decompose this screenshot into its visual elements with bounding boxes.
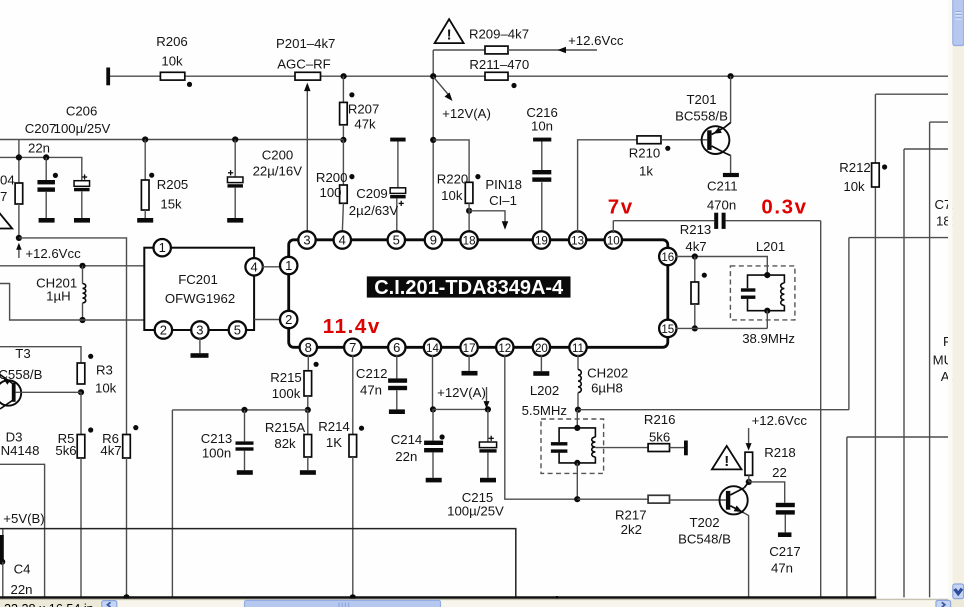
svg-text:R210: R210 [629, 146, 661, 161]
status bar [0, 599, 964, 607]
svg-text:R216: R216 [644, 412, 676, 427]
svg-text:R218: R218 [764, 445, 796, 460]
svg-text:9: 9 [430, 233, 437, 248]
ceramic filter L202 dashed box [541, 419, 604, 473]
wire rail A (y=139.5) [0, 139, 343, 141]
IC pin 14 (bottom) [424, 339, 441, 356]
wire rail to R220 [433, 140, 469, 182]
junction T201 emitter on rail [728, 73, 734, 79]
label AU (cut) [941, 369, 964, 384]
svg-text:2: 2 [285, 312, 292, 327]
warning triangle left edge (cut) [0, 212, 12, 229]
svg-text:5k6: 5k6 [55, 443, 76, 458]
+12V(A) branch arrow top [433, 77, 491, 121]
svg-text:OFWG1962: OFWG1962 [165, 291, 235, 306]
svg-text:C200: C200 [262, 148, 294, 163]
capacitor C216 10n [526, 105, 558, 233]
warning triangle near T202 [712, 446, 742, 470]
svg-text:1: 1 [159, 240, 166, 255]
ground pin 20 [533, 355, 549, 376]
resistor R217 2k2 [615, 495, 669, 537]
svg-text:R220: R220 [437, 171, 469, 186]
svg-text:82k: 82k [274, 436, 296, 451]
svg-text:L201: L201 [756, 239, 785, 254]
svg-text:23.28 x 16.54 in: 23.28 x 16.54 in [4, 602, 94, 607]
svg-text:R212: R212 [839, 160, 871, 175]
wire 0.3v bus down [820, 221, 822, 598]
wire +12.6 node to R6 branch [19, 238, 127, 435]
resistor R215A 82k [265, 410, 316, 475]
resistor R216 5k6 [595, 412, 684, 452]
IC pin 20 (bottom) [533, 339, 550, 356]
IC pin 10 (top) [605, 231, 622, 248]
svg-text:C217: C217 [769, 544, 801, 559]
label MU (cut) [933, 353, 962, 368]
wire bus y=149 [904, 149, 948, 597]
svg-text:15: 15 [661, 323, 674, 336]
svg-text:T201: T201 [686, 92, 716, 107]
IC pin 6 (bottom) [388, 339, 405, 356]
resistor R206 [156, 34, 188, 80]
svg-text:16: 16 [661, 251, 674, 264]
IC pin 16 (right) [659, 248, 676, 265]
wire left branch down [171, 410, 173, 598]
dot near R206 [187, 82, 192, 87]
junction R213 top [692, 253, 698, 259]
svg-text:FC201: FC201 [178, 272, 218, 287]
label L202 5.5MHz [522, 383, 567, 418]
svg-text:8: 8 [305, 340, 312, 355]
label D3 N4148 [1, 430, 40, 459]
svg-text:2: 2 [160, 323, 167, 338]
junction R6 bottom [123, 594, 129, 600]
resistor R209-4k7 [433, 26, 597, 54]
junction R214 bottom [350, 594, 356, 600]
svg-text:22n: 22n [395, 449, 417, 464]
wire pin16 to L201 [675, 257, 767, 276]
wire R3 junction down through R5 [80, 392, 82, 434]
svg-text:L202: L202 [530, 383, 559, 398]
svg-text:5: 5 [234, 323, 241, 338]
wire rail B (y=157.4) [0, 157, 82, 180]
svg-text:C213: C213 [201, 431, 233, 446]
IC pin 3 (top) [298, 231, 315, 248]
wire R6 to bottom rail [126, 458, 128, 598]
IC pin 5 (top) [388, 231, 405, 248]
resistor R200 100 [316, 140, 348, 233]
svg-text:R207: R207 [348, 101, 380, 116]
resistor R204 (cut at edge) [0, 140, 23, 238]
hscroll track [118, 601, 936, 607]
svg-text:20: 20 [535, 342, 548, 355]
label 22n [28, 141, 50, 156]
tick on bottom rail [556, 596, 558, 601]
resistor R214 1K [318, 419, 356, 457]
FC201 pin 3 [191, 321, 208, 338]
label 38.9MHz [742, 331, 795, 346]
svg-text:10k: 10k [161, 54, 183, 69]
resistor R213 4k7 [680, 222, 712, 328]
resistor R215 100k [270, 370, 311, 401]
svg-text:4: 4 [250, 259, 257, 274]
svg-text:C214: C214 [391, 432, 423, 447]
IC pin 7 (bottom) [344, 339, 361, 356]
page edge strip [948, 0, 953, 600]
arrow +12.6Vcc down to R218 [746, 428, 752, 451]
svg-text:04: 04 [0, 173, 15, 188]
svg-text:2µ2/63V: 2µ2/63V [349, 203, 399, 218]
svg-text:N4148: N4148 [1, 443, 40, 458]
wire L202 bottom to pin12 row [576, 463, 578, 499]
vertical scrollbar thumb [953, 0, 964, 46]
svg-text:4k7: 4k7 [100, 443, 121, 458]
svg-text:100n: 100n [202, 446, 231, 461]
FC201 pin 1 [154, 239, 171, 256]
IC pin 4 (top) [334, 231, 351, 248]
svg-text:10: 10 [607, 235, 620, 248]
svg-text:22: 22 [772, 465, 787, 480]
svg-text:4: 4 [339, 233, 346, 248]
dot near R214 [359, 426, 364, 431]
terminal bar left of R206 [106, 68, 110, 86]
svg-text:1µH: 1µH [46, 288, 70, 303]
svg-text:38.9MHz: 38.9MHz [742, 331, 795, 346]
IC pin 12 (bottom) [496, 339, 513, 356]
capacitor C217 47n [769, 503, 801, 576]
resistor R210 1k [629, 136, 661, 178]
dot near R205 [149, 173, 154, 178]
svg-text:47k: 47k [354, 117, 376, 132]
capacitor C213 100n [201, 410, 254, 475]
wire R220 to pin 18 [468, 203, 470, 233]
resistor R6 4k7 [100, 431, 130, 458]
label L201 [756, 239, 785, 254]
svg-text:C4: C4 [14, 562, 31, 577]
capacitor C200 22u/16V electrolytic [227, 140, 302, 223]
wire CH202 junction to L202 [576, 410, 578, 428]
svg-text:47n: 47n [771, 561, 793, 576]
capacitor C214 22n [391, 409, 443, 482]
wire rail to T201 emitter [730, 76, 732, 123]
dot near R210 [665, 146, 670, 151]
svg-text:1k: 1k [639, 163, 653, 178]
wire T202 emitter down [744, 513, 749, 599]
svg-text:5: 5 [393, 233, 400, 248]
resistor R220 10k [437, 171, 473, 203]
svg-text:19: 19 [535, 235, 548, 248]
junction R211 wire [430, 73, 436, 79]
svg-text:AGC–RF: AGC–RF [277, 57, 331, 72]
IC pin 9 (top) [425, 231, 442, 248]
svg-text:5.5MHz: 5.5MHz [522, 403, 567, 418]
svg-text:6µH8: 6µH8 [591, 380, 623, 395]
vertical scrollbar track [953, 0, 964, 600]
terminal bar T201 collector [723, 173, 739, 177]
svg-text:6: 6 [393, 340, 400, 355]
junction +12.6Vcc node [16, 235, 22, 241]
svg-text:12: 12 [498, 342, 511, 355]
wire collector row to C217 [749, 482, 785, 503]
transistor T202 BC548/B [678, 482, 749, 547]
label P (cut) [943, 334, 955, 349]
svg-text:22n: 22n [10, 582, 32, 597]
capacitor C212 47n [356, 355, 407, 414]
wire bus y=237.6 [849, 238, 948, 410]
transistor T201 BC558/B [675, 92, 730, 155]
junction T202 collector/R218 [746, 479, 752, 485]
capacitor C211 470n [613, 179, 820, 234]
svg-text:3: 3 [196, 323, 203, 338]
svg-text:47n: 47n [360, 382, 382, 397]
junction rail A / C200 [232, 136, 238, 142]
hscroll thumb [245, 600, 441, 607]
svg-text:R3: R3 [96, 363, 113, 378]
inductor CH202 6uH8 [578, 355, 628, 410]
resistor R211-470 [469, 57, 529, 80]
wire bus y=94 from R212 line [875, 93, 948, 95]
svg-text:22n: 22n [28, 141, 50, 156]
dot near R212 [882, 164, 887, 169]
svg-text:7v: 7v [608, 196, 634, 219]
svg-text:R215A: R215A [265, 420, 306, 435]
junction below R220 [466, 208, 472, 214]
svg-text:BC558/B: BC558/B [0, 367, 43, 382]
wire T3 base to R3 bottom [16, 391, 81, 393]
svg-text:10k: 10k [843, 179, 865, 194]
svg-text:+12V(A): +12V(A) [442, 106, 491, 121]
warning triangle top [435, 19, 464, 43]
wire FC201 pin4 to IC pin 1 [262, 266, 282, 268]
junction L202/pin12/R217 [574, 496, 580, 502]
svg-text:100: 100 [319, 185, 341, 200]
wire pin12 down and right [505, 355, 578, 500]
junction R213 bottom [692, 325, 698, 331]
svg-text:CH202: CH202 [587, 366, 628, 381]
svg-text:7: 7 [349, 340, 356, 355]
wire main +12.6V rail (y=76) [109, 75, 948, 77]
svg-text:5k6: 5k6 [649, 430, 670, 445]
inductor CH201 1uH [36, 266, 86, 320]
resistor R5 5k6 [55, 431, 84, 458]
svg-text:R217: R217 [615, 507, 647, 522]
svg-text:PIN18: PIN18 [485, 177, 522, 192]
IC C.I.201-TDA8349A-4 body [289, 240, 668, 347]
svg-text:470n: 470n [707, 198, 736, 213]
IC pin 19 (top) [533, 231, 550, 248]
IC pin 11 (bottom) [569, 339, 586, 356]
capacitor C206 100u/25V electrolytic [74, 174, 90, 222]
FC201 pin 2 [155, 321, 172, 338]
label C7 (cut) [935, 197, 959, 212]
svg-text:BC558/B: BC558/B [675, 109, 728, 124]
svg-text:C.I.201-TDA8349A-4: C.I.201-TDA8349A-4 [374, 277, 564, 299]
wire R210 to T201 base [661, 139, 707, 141]
label +5V(B) [3, 511, 44, 526]
wire T201 collector to bar [730, 155, 732, 173]
svg-text:!: ! [447, 27, 452, 44]
L202 tank circuit [551, 425, 596, 466]
junction rail B / R204 [16, 154, 22, 160]
label box C.I.201-TDA8349A-4 [367, 276, 571, 298]
svg-text:C207: C207 [25, 121, 57, 136]
wire pin14 down [432, 355, 434, 410]
junction C215 top [485, 406, 491, 412]
wire R217 to T202 base [670, 499, 726, 501]
svg-text:10k: 10k [95, 381, 117, 396]
wire R217 row [577, 498, 648, 500]
voltage 7v [608, 196, 634, 219]
svg-text:3: 3 [303, 233, 310, 248]
resistor R205 15k [137, 140, 188, 223]
label +12.6Vcc (T202) [752, 413, 808, 428]
wire rail to FC201 (y=265.8) [0, 265, 144, 267]
wire bus y=122 [930, 122, 948, 597]
svg-text:P201–4k7: P201–4k7 [276, 36, 335, 51]
svg-text:T3: T3 [15, 346, 30, 361]
terminal bar R216 [684, 441, 688, 456]
wire schematic bottom rail [0, 596, 876, 599]
svg-text:C212: C212 [356, 366, 388, 381]
wire +12VA row [433, 408, 488, 410]
transistor T3 BC558/B (cut at edge) [0, 346, 43, 409]
arrow PIN18 CI-1 [469, 177, 522, 230]
hscroll right button [936, 600, 951, 607]
svg-text:+12.6Vcc: +12.6Vcc [568, 33, 624, 48]
svg-text:13: 13 [571, 235, 584, 248]
svg-text:18: 18 [463, 235, 476, 248]
wire pin13 to base of T201 [578, 140, 637, 233]
IC pin 18 (top) [460, 231, 477, 248]
wire pin7 long vertical [352, 355, 354, 435]
svg-text:22µ/16V: 22µ/16V [253, 163, 303, 178]
voltage 0.3v [761, 196, 807, 219]
svg-text:+5V(B): +5V(B) [3, 511, 44, 526]
wire R209 junction vertical to pin 9 [432, 50, 434, 233]
wire bus y=437 right [847, 437, 948, 598]
svg-text:T202: T202 [689, 515, 719, 530]
svg-text:R215: R215 [270, 370, 302, 385]
IC pin 1 (left) [280, 257, 297, 274]
svg-text:R200: R200 [316, 170, 348, 185]
svg-text:11: 11 [572, 342, 584, 355]
wire big box outline [0, 529, 516, 598]
svg-text:+12.6Vcc: +12.6Vcc [25, 246, 81, 261]
svg-text:R205: R205 [157, 177, 189, 192]
resistor R212 10k [839, 160, 879, 194]
svg-text:CI–1: CI–1 [489, 193, 517, 208]
IC pin 17 (bottom) [460, 339, 477, 356]
ceramic filter L201 38.9MHz dashed box [730, 266, 795, 320]
wire left edge loop to FC201 [0, 284, 144, 321]
L201 tank circuit [741, 272, 785, 328]
junction rail A / R209 vertical [430, 137, 436, 143]
svg-text:R209–4k7: R209–4k7 [469, 26, 529, 41]
junction R3 bottom [78, 389, 84, 395]
capacitor C215 100u/25V electrolytic [447, 409, 504, 518]
wire CH202 junction to right bus [578, 409, 849, 411]
wiper arrow of P201 from pin 3 [304, 83, 311, 233]
voltage 11.4v [323, 315, 381, 338]
dot near R213 [702, 273, 707, 278]
svg-text:+12V(A): +12V(A) [437, 385, 486, 400]
dot near R215 [314, 362, 319, 367]
svg-text:15k: 15k [160, 197, 182, 212]
junction rail B / C207 [43, 154, 49, 160]
ground pin 17 [462, 355, 478, 376]
junction C214 top [430, 406, 436, 412]
IC pin 8 (bottom) [300, 339, 317, 356]
wire pin8 to R215 [307, 355, 309, 371]
dot near R220 [475, 174, 480, 179]
IC pin 2 (left) [280, 311, 297, 328]
capacitor C209 2u2/63V [349, 138, 406, 233]
junction R215/R215A [305, 407, 311, 413]
svg-text:1: 1 [285, 258, 292, 273]
junction CH201 bottom [79, 317, 85, 323]
wire FC201 to IC pin 2 [254, 319, 281, 321]
junction C213 top [241, 407, 247, 413]
potentiometer P201-4k7 AGC-RF [276, 36, 335, 80]
wire junction row y=409.9 [172, 409, 307, 411]
svg-text:R213: R213 [680, 222, 712, 237]
capacitor C207 22n [37, 157, 55, 222]
svg-text:100k: 100k [272, 386, 301, 401]
dot near R207 [349, 92, 354, 97]
wire +5V(B) branch [0, 464, 45, 597]
svg-text:BC548/B: BC548/B [678, 532, 731, 547]
svg-text:7: 7 [0, 189, 7, 204]
arrow +12V(A) bottom [437, 385, 489, 409]
svg-text:C206: C206 [66, 104, 98, 119]
resistor R218 22 [745, 445, 796, 480]
svg-text:4k7: 4k7 [685, 239, 706, 254]
wire R218 bottom junction [748, 475, 750, 482]
dot near R211 [511, 83, 516, 88]
dot near C207 [53, 173, 58, 178]
IC FC201 OFWG1962 box [144, 248, 254, 330]
label 18 (cut) [936, 214, 958, 229]
svg-text:R206: R206 [156, 34, 188, 49]
svg-text:0.3v: 0.3v [761, 196, 807, 219]
IC pin 13 (top) [569, 231, 586, 248]
svg-text:!: ! [724, 453, 729, 470]
dot near R5 [88, 427, 93, 432]
svg-text:17: 17 [463, 342, 476, 355]
svg-text:C211: C211 [707, 179, 738, 194]
FC201 pin 4 [245, 258, 262, 275]
svg-text:100µ/25V: 100µ/25V [54, 121, 111, 136]
ground FC201 pin 3 [191, 337, 209, 357]
junction CH202 bottom [575, 407, 581, 413]
svg-text:+12.6Vcc: +12.6Vcc [752, 413, 808, 428]
svg-text:11.4v: 11.4v [323, 315, 381, 338]
junction CH201 top [79, 263, 85, 269]
svg-text:10n: 10n [531, 119, 553, 134]
wire R215 to junction [307, 396, 309, 410]
svg-text:10k: 10k [441, 188, 463, 203]
wire R5 to bottom rail [80, 458, 82, 598]
FC201 pin 5 [229, 321, 246, 338]
status bar text [4, 602, 94, 607]
hscroll left button [102, 601, 117, 607]
svg-text:R211–470: R211–470 [469, 57, 529, 72]
capacitor C4 22n (cut at edge) [0, 529, 33, 598]
resistor R207 47k [340, 76, 380, 140]
dot near R200 [349, 174, 354, 179]
label C206 [66, 104, 98, 119]
arrow to +12.6Vcc feed [558, 33, 624, 53]
wire pin15 to L201 bottom [675, 327, 767, 329]
